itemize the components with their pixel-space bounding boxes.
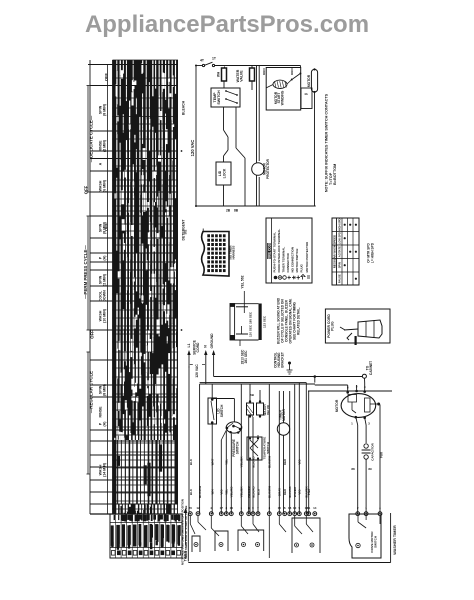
svg-text:YEL/RD: YEL/RD — [230, 486, 234, 498]
svg-text:SWITCH: SWITCH — [220, 404, 224, 417]
temperature switch bottom — [247, 435, 270, 514]
wire center double rail — [257, 66, 260, 207]
svg-text:MOTOR: MOTOR — [307, 74, 311, 87]
svg-text:SWITCH: SWITCH — [217, 90, 221, 105]
svg-text:AGITATE: AGITATE — [338, 246, 342, 257]
svg-text:WIRE CODE: WIRE CODE — [267, 242, 271, 260]
timer contact group 4 — [269, 516, 320, 558]
motor M1 capsule — [307, 68, 318, 93]
svg-text:120 VAC: 120 VAC — [195, 364, 199, 378]
svg-text:185 SEC: 185 SEC — [249, 311, 253, 324]
svg-text:WASHER TIMER: WASHER TIMER — [393, 525, 397, 555]
svg-text:4T: 4T — [200, 59, 205, 63]
svg-text:—REGULAR CYCLE: —REGULAR CYCLE — [88, 371, 93, 413]
svg-text:ORN: ORN — [262, 68, 266, 75]
svg-text:N: N — [204, 345, 208, 348]
svg-text:20: 20 — [189, 506, 193, 510]
svg-text:(8 MIN): (8 MIN) — [103, 383, 107, 396]
svg-text:GRAY: GRAY — [278, 488, 282, 496]
chart side tick labels — [181, 100, 186, 331]
service cord labels — [187, 333, 214, 378]
svg-text:—PERM PRESS CYCLE—: —PERM PRESS CYCLE— — [83, 245, 88, 299]
note suffix text — [325, 93, 338, 192]
svg-text:SWITCH: SWITCH — [236, 441, 240, 454]
svg-text:VIO: VIO — [220, 489, 224, 495]
svg-text:WH: WH — [217, 71, 221, 77]
svg-text:TIMER TERMINAL: TIMER TERMINAL — [282, 247, 286, 273]
cycle bracket PERM PRESS CYCLE — [83, 216, 90, 330]
svg-text:—DELICATE CYCLE—: —DELICATE CYCLE— — [89, 115, 94, 162]
svg-text:YEL/BK: YEL/BK — [240, 486, 244, 498]
svg-text:123 SEC: 123 SEC — [262, 315, 266, 328]
power cord plug box — [325, 309, 390, 345]
svg-text:(A): (A) — [103, 255, 107, 261]
wire 120VAC left rail — [190, 65, 197, 208]
svg-text:RED: RED — [283, 488, 287, 495]
speed table side note — [367, 242, 375, 263]
svg-text:281 SEC: 281 SEC — [244, 350, 248, 363]
motor protector — [252, 158, 270, 179]
svg-text:DOOR INTERLOCK TERMINAL: DOOR INTERLOCK TERMINAL — [277, 229, 281, 273]
svg-text:18: 18 — [288, 506, 292, 510]
svg-text:1T: 1T — [212, 57, 217, 61]
svg-text:4A: 4A — [304, 92, 308, 96]
svg-text:REGULAR WASH SPEED: REGULAR WASH SPEED — [333, 235, 337, 268]
note text left of bottom box — [181, 499, 188, 565]
water valve label top — [236, 69, 244, 82]
wire code legend table — [266, 218, 312, 283]
bottom box outline — [188, 384, 390, 563]
svg-text:LOW SPD: LOW SPD — [338, 232, 342, 244]
connector terminal block — [202, 229, 236, 277]
svg-text:15: 15 — [278, 506, 282, 510]
svg-text:WINDING: WINDING — [281, 90, 285, 105]
svg-text:PAUSE: PAUSE — [338, 274, 342, 283]
svg-text:1: 1 — [351, 422, 353, 426]
svg-text:BLK: BLK — [189, 488, 193, 495]
svg-text:562: 562 — [184, 229, 188, 234]
svg-text:ORN: ORN — [290, 68, 294, 75]
lid lock switch — [216, 162, 231, 206]
svg-text:120 SEC: 120 SEC — [249, 324, 253, 337]
svg-text:BLK: BLK — [189, 458, 193, 465]
svg-text:SPIN: SPIN — [338, 262, 342, 268]
water valve coil 2 — [250, 66, 255, 91]
svg-text:NOTE: SUFFIX INDICATES TIMER S: NOTE: SUFFIX INDICATES TIMER SWITCH CONT… — [325, 93, 329, 192]
svg-text:WITH TIMER DIAL AT START OF CY: WITH TIMER DIAL AT START OF CYCLE — [184, 505, 188, 558]
svg-text:HARNESS: HARNESS — [231, 246, 235, 260]
cycle bracket OFF label top — [104, 72, 109, 81]
svg-text:VALVE: VALVE — [240, 70, 244, 82]
svg-text:BLK/WH: BLK/WH — [268, 456, 272, 468]
svg-text:120 VAC: 120 VAC — [190, 140, 195, 157]
svg-text:RED: RED — [283, 458, 287, 465]
svg-text:GROUND: GROUND — [210, 333, 214, 349]
svg-text:RELATED DETAIL.: RELATED DETAIL. — [297, 307, 301, 335]
svg-text:10: 10 — [293, 506, 297, 510]
water valve coils bottom — [247, 384, 271, 514]
svg-text:PLUG: PLUG — [331, 321, 335, 331]
svg-text:WHT: WHT — [211, 458, 215, 465]
wire bus connections bottom right — [379, 516, 381, 524]
timer contact group 2 — [198, 516, 228, 551]
svg-text:MOTOR: MOTOR — [335, 399, 339, 412]
wire temp switch branch — [236, 107, 245, 206]
timer chart footer table — [110, 514, 182, 558]
svg-text:11: 11 — [307, 506, 311, 510]
cycle label OFF lower — [90, 330, 95, 339]
cycle bracket REGULAR CYCLE — [87, 352, 94, 474]
control housing bracket label — [274, 352, 285, 368]
svg-text:(2 MIN): (2 MIN) — [103, 139, 107, 152]
washer timer label — [393, 525, 397, 555]
svg-text:BLU: BLU — [256, 489, 260, 495]
motor speed table — [332, 218, 359, 285]
svg-text:YEL: YEL — [225, 459, 229, 465]
service cord arrows — [187, 350, 215, 384]
svg-text:RINSE: RINSE — [99, 406, 103, 418]
svg-text:BLK/WH: BLK/WH — [268, 486, 272, 498]
bottom wire labels — [184, 229, 312, 498]
cycle label OFF mid — [84, 185, 109, 231]
svg-text:VIO: VIO — [298, 459, 302, 465]
motor start winding box — [262, 68, 301, 111]
motor start sub box — [301, 88, 312, 109]
svg-text:3: 3 — [368, 422, 370, 426]
wire bottom rail of top schematic — [196, 206, 316, 213]
svg-text:5: 5 — [298, 506, 300, 510]
bottom vertical wires — [200, 383, 392, 514]
svg-text:BRACKET: BRACKET — [281, 352, 285, 368]
svg-text:PUSH-TO-START TERMINAL: PUSH-TO-START TERMINAL — [273, 232, 277, 273]
chart segment sub-labels — [99, 103, 107, 477]
svg-text:(8 MIN): (8 MIN) — [103, 221, 107, 234]
svg-text:MOTOR: MOTOR — [282, 408, 286, 421]
svg-text:(8 MIN): (8 MIN) — [103, 103, 107, 116]
to cabinet terminal — [362, 361, 373, 378]
timer contact group 3 — [238, 516, 264, 551]
wire motor terminal 1 — [351, 417, 372, 514]
svg-text:YEL: YEL — [225, 489, 229, 495]
timer cam chart bar pattern — [113, 60, 178, 514]
svg-text:WH/BK: WH/BK — [293, 486, 297, 497]
svg-text:CAPACITOR: CAPACITOR — [370, 442, 374, 460]
svg-text:LID: LID — [218, 170, 222, 176]
ground chassis symbol — [287, 362, 293, 375]
svg-text:BLK/RD: BLK/RD — [251, 486, 255, 498]
svg-text:A: A — [99, 162, 103, 165]
svg-text:BLK/WH: BLK/WH — [198, 486, 202, 498]
svg-text:WH: WH — [211, 490, 215, 495]
switch motor start — [291, 73, 302, 81]
drive motor switch box — [349, 514, 381, 558]
svg-text:88: 88 — [351, 467, 355, 471]
svg-text:6: 6 — [284, 506, 286, 510]
svg-text:PROTECTOR: PROTECTOR — [266, 158, 270, 179]
svg-text:89: 89 — [368, 467, 372, 471]
svg-text:(10 MIN): (10 MIN) — [103, 308, 107, 323]
cycle bracket DELICATE CYCLE — [87, 86, 94, 193]
svg-text:17: 17 — [220, 506, 224, 510]
svg-text:BLK/RD: BLK/RD — [251, 456, 255, 468]
svg-text:VIO: VIO — [298, 489, 302, 495]
svg-text:9: 9 — [252, 506, 254, 510]
svg-text:YEL/BK: YEL/BK — [240, 456, 244, 468]
svg-text:DETERGENT: DETERGENT — [182, 219, 186, 241]
svg-text:(A): (A) — [103, 421, 107, 427]
header watermark — [0, 11, 464, 39]
svg-text:2B: 2B — [226, 209, 231, 213]
buzzer note text block — [277, 297, 301, 344]
drive motor M2 — [335, 385, 376, 426]
wire left service rail — [188, 366, 190, 514]
svg-text:SWITCH: SWITCH — [374, 536, 378, 548]
svg-text:(2 MIN): (2 MIN) — [103, 273, 107, 286]
svg-text:CABINET: CABINET — [369, 361, 373, 375]
wire temp switch to lid lock — [224, 107, 229, 162]
timer arrow marker — [184, 508, 188, 561]
svg-text:VALVE: VALVE — [266, 405, 270, 415]
timer chart label column — [90, 60, 113, 514]
lid switch — [208, 384, 224, 514]
svg-text:OFF: OFF — [90, 330, 95, 339]
svg-text:BLK/RD: BLK/RD — [288, 486, 292, 498]
svg-text:8B: 8B — [234, 209, 239, 213]
water valve coil 1 — [217, 67, 227, 89]
timer motor — [277, 391, 289, 514]
svg-text:CORD: CORD — [196, 342, 200, 353]
svg-text:(14 MIN): (14 MIN) — [103, 462, 107, 477]
timer chart segment lines — [88, 60, 178, 514]
svg-text:14: 14 — [313, 506, 317, 510]
svg-text:MOTOR SWITCH: MOTOR SWITCH — [295, 249, 299, 273]
svg-text:3: 3 — [225, 506, 227, 510]
switch motor internal — [370, 403, 384, 514]
svg-text:7: 7 — [257, 506, 259, 510]
svg-text:B=BOTTOM: B=BOTTOM — [333, 164, 337, 185]
svg-text:OFF: OFF — [104, 72, 109, 81]
svg-text:PUR: PUR — [380, 451, 384, 458]
wire label 2813 sec — [241, 349, 249, 364]
svg-text:LOCK: LOCK — [223, 168, 227, 178]
wire motor down rail — [301, 66, 315, 207]
switch 4T push-to-start — [200, 57, 217, 67]
wire label YEL 562 — [241, 275, 245, 288]
pressure switch — [213, 399, 242, 514]
svg-text:5B: 5B — [250, 393, 255, 397]
terminal bus — [188, 506, 381, 515]
svg-text:CONNECTOR: CONNECTOR — [286, 252, 290, 272]
svg-text:BLEACH: BLEACH — [182, 100, 186, 115]
svg-text:16: 16 — [230, 506, 234, 510]
svg-text:PNK: PNK — [307, 488, 311, 495]
svg-text:NO CONNECTION: NO CONNECTION — [291, 247, 295, 273]
wire top rail — [196, 65, 301, 67]
svg-text:OFF: OFF — [84, 185, 89, 194]
temp switch — [211, 88, 240, 107]
svg-text:HIGH SPD: HIGH SPD — [338, 218, 342, 231]
capacitor filter box — [230, 291, 266, 346]
svg-text:DOWN: DOWN — [103, 290, 107, 302]
svg-text:4: 4 — [268, 506, 270, 510]
svg-text:MOTOR PROTECTOR: MOTOR PROTECTOR — [305, 241, 309, 273]
wire motor to cabinet — [315, 379, 365, 393]
svg-text:(6 MIN): (6 MIN) — [103, 179, 107, 192]
wire horizontal to cabinet — [214, 375, 363, 382]
svg-text:1: 1 — [240, 506, 242, 510]
svg-text:YEL 562: YEL 562 — [241, 275, 245, 288]
timer contact group 1 — [190, 516, 200, 552]
capacitor C1 — [362, 418, 375, 514]
svg-text:L1: L1 — [187, 343, 191, 347]
svg-text:PLUG: PLUG — [300, 264, 304, 273]
svg-text:12: 12 — [196, 506, 200, 510]
svg-text:L= HIGH SPD: L= HIGH SPD — [371, 242, 375, 263]
